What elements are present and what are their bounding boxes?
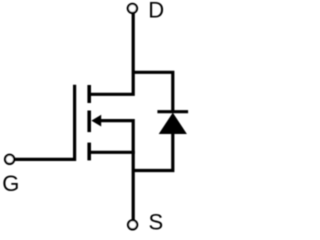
diode D1 triangle bbox=[159, 113, 187, 134]
terminal circle G bbox=[5, 155, 14, 164]
transistor Q1 body arrow bbox=[91, 115, 101, 127]
wire: drain vertical + drain stub bbox=[89, 13, 133, 94]
transistor Q1 channel bar drain segment bbox=[87, 85, 91, 103]
svg-text:D: D bbox=[148, 0, 164, 22]
terminal circle D bbox=[128, 4, 137, 13]
svg-text:S: S bbox=[149, 210, 164, 235]
diode D1 cathode bar bbox=[157, 110, 188, 113]
transistor Q1 channel bar source segment bbox=[87, 143, 91, 161]
wire: source stub bbox=[89, 151, 135, 154]
transistor Q1 channel bar body segment bbox=[87, 111, 91, 133]
wire: gate lead + gate line bbox=[15, 85, 75, 160]
terminal circle S bbox=[128, 220, 137, 229]
N-channel MOSFET with body diode schematic bbox=[0, 0, 190, 235]
svg-text:G: G bbox=[2, 171, 19, 196]
wire: top branch to diode cathode bbox=[133, 72, 173, 111]
wire: diode anode vertical + bottom branch bbox=[133, 133, 173, 171]
wire: body stub + source vertical to S terminal bbox=[97, 121, 133, 221]
